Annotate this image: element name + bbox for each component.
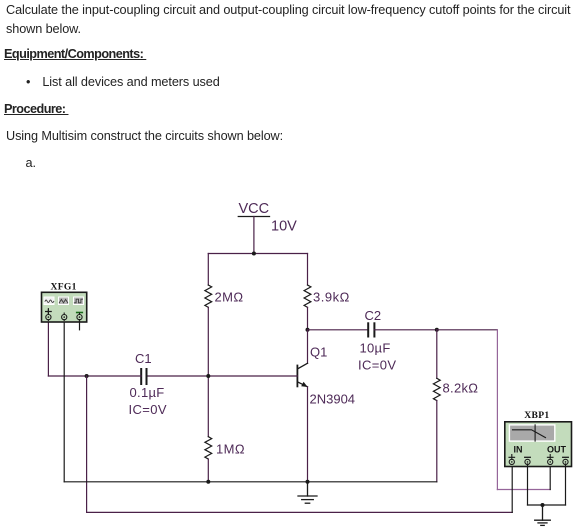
wire output vertical — [496, 330, 498, 490]
heading Equipment/Components — [4, 47, 146, 61]
wire C2 to output node — [374, 329, 437, 331]
node top rail junction — [252, 252, 256, 256]
wire left branch middle — [207, 307, 209, 436]
power symbol VCC — [238, 201, 297, 235]
resistor 1M — [205, 437, 212, 459]
wire bottom rail to bode IN+ — [87, 511, 513, 513]
ground bode — [535, 505, 551, 525]
wire 8.2k upper lead — [436, 330, 438, 379]
paragraph line 2 — [6, 22, 81, 36]
wire input to bottom — [86, 376, 88, 512]
node bode ground junction — [541, 503, 545, 507]
svg-text:1MΩ: 1MΩ — [216, 442, 245, 457]
wire collector node to C2 — [308, 329, 369, 331]
svg-text:8.2kΩ: 8.2kΩ — [443, 381, 479, 396]
bullet item — [26, 75, 220, 89]
wire XFG minus stub — [79, 320, 81, 330]
svg-text:OUT: OUT — [547, 445, 567, 455]
svg-text:C2: C2 — [365, 308, 382, 323]
transistor Q1 — [297, 363, 307, 387]
wire left branch lower — [207, 459, 209, 482]
capacitor C1 — [141, 369, 146, 384]
wire output bottom to OUT+ — [497, 489, 550, 491]
svg-text:10V: 10V — [271, 219, 297, 235]
list item a. — [26, 156, 36, 170]
capacitor C2 — [368, 323, 374, 336]
resistor 8.2k — [433, 378, 440, 400]
svg-text:Q1: Q1 — [310, 345, 327, 360]
svg-text:VCC: VCC — [239, 201, 270, 217]
svg-text:2MΩ: 2MΩ — [215, 290, 244, 305]
transistor Q1 collector wire — [307, 330, 309, 364]
node input junction — [85, 374, 89, 378]
wire OUT- to ground node — [543, 504, 566, 506]
wire OUT+ riser — [549, 464, 551, 490]
svg-text:XFG1: XFG1 — [51, 281, 77, 292]
bode plotter XBP1 — [505, 410, 572, 466]
node base-divider junction — [206, 374, 210, 378]
wire OUT- down — [565, 464, 567, 505]
function generator XFG1 — [42, 281, 87, 322]
wire XFG plus down — [47, 320, 49, 376]
svg-text:10µF: 10µF — [360, 341, 391, 356]
wire emitter down — [307, 387, 309, 482]
wire C1 to input — [48, 375, 141, 377]
svg-text:2N3904: 2N3904 — [310, 392, 356, 407]
node emitter ground junction — [306, 480, 310, 484]
paragraph line 1 — [6, 3, 570, 17]
ground main — [298, 482, 317, 503]
wire XFG com down — [63, 320, 65, 482]
heading Procedure — [4, 102, 68, 116]
wire IN- down — [527, 464, 529, 505]
wire output node to corner — [437, 329, 498, 331]
svg-text:XBP1: XBP1 — [524, 410, 549, 421]
node 1M ground junction — [206, 480, 210, 484]
wire right branch to collector node — [307, 307, 309, 330]
wire IN- to ground node — [528, 504, 543, 506]
wire left branch upper — [207, 254, 209, 286]
wire IN+ riser — [511, 464, 513, 512]
node collector junction — [306, 328, 310, 332]
svg-text:3.9kΩ: 3.9kΩ — [313, 290, 350, 305]
svg-text:0.1µF: 0.1µF — [130, 385, 165, 400]
wire right branch upper — [307, 254, 309, 286]
svg-text:IC=0V: IC=0V — [358, 358, 397, 373]
resistor 2M — [205, 285, 212, 307]
svg-text:IC=0V: IC=0V — [129, 402, 168, 417]
svg-text:C1: C1 — [135, 351, 152, 366]
wire ground rail — [64, 481, 437, 483]
wire VCC stub — [253, 217, 255, 254]
node output junction — [435, 328, 439, 332]
resistor 3.9k — [304, 285, 311, 307]
wire 8.2k lower lead — [436, 401, 438, 482]
wire base — [146, 375, 297, 377]
wire top rail — [208, 253, 307, 255]
paragraph Using Multisim — [6, 129, 283, 143]
svg-text:IN: IN — [514, 445, 523, 455]
